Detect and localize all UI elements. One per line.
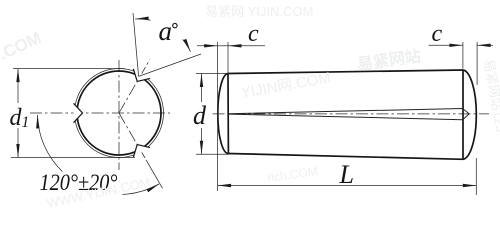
L arrow right	[463, 184, 477, 187]
dimension d arrow top	[200, 74, 203, 88]
angle a leg 1 (near vertical)	[133, 13, 139, 76]
left c dimension line right part with leader	[228, 45, 265, 47]
left crowned end arc	[218, 74, 229, 154]
pin left end face	[227, 74, 229, 154]
angle 120 arrow left	[36, 115, 39, 129]
svg-text:d: d	[193, 101, 207, 130]
left c extension line inner (pin end face extended)	[227, 42, 229, 74]
label L	[336, 164, 358, 185]
groove notch left	[74, 103, 83, 122]
left c dimension line middle segment	[218, 45, 228, 47]
left c arrow pointing left	[228, 44, 242, 47]
dimension d1 arrow top	[16, 69, 19, 83]
dimension d extension line top	[196, 73, 229, 75]
left c extension line outer (through dome tip, also L extension)	[217, 42, 219, 191]
right c arrow pointing left	[477, 44, 491, 47]
svg-text:c: c	[248, 21, 259, 47]
right c dimension line right part	[477, 44, 493, 46]
groove line lower (tapered)	[229, 114, 469, 120]
right c dimension line left part	[429, 44, 463, 46]
dimension d line	[201, 74, 203, 155]
centerline horizontal (end view)	[30, 112, 170, 114]
dimension d1 arrow bottom	[16, 144, 19, 158]
dimension d1 extension line bottom	[11, 157, 135, 159]
label d1	[8, 103, 30, 128]
right c arrow pointing right	[449, 44, 463, 47]
left c arrow pointing right	[204, 44, 218, 47]
centerline horizontal (side view)	[213, 113, 490, 115]
groove line upper (tapered)	[229, 109, 469, 114]
angle 120 arc left segment	[38, 115, 63, 172]
pin top edge	[228, 70, 463, 74]
L arrow left	[218, 184, 232, 187]
svg-text:a: a	[159, 16, 173, 46]
groove notch top-right	[133, 69, 150, 82]
angle a leg 2	[139, 54, 201, 76]
svg-text:易紧网 YIJIN.COM: 易紧网 YIJIN.COM	[205, 4, 313, 19]
L extension line right	[475, 158, 477, 195]
dimension d1 line	[17, 69, 19, 158]
outer expanded circle d1 (thin)	[75, 69, 164, 158]
dimension d1 extension line top	[13, 68, 125, 70]
angle a arc arrow right	[183, 39, 190, 52]
right c extension line inner	[462, 42, 464, 69]
dimension d extension line bottom	[196, 153, 229, 155]
svg-text:c: c	[432, 21, 443, 47]
angle a arc arrow left	[135, 17, 149, 20]
left c dimension line left part	[197, 45, 218, 47]
angle a arc right segment	[183, 39, 191, 51]
right c extension line outer	[476, 42, 478, 85]
main circle d (thick)	[77, 71, 161, 155]
label d	[192, 102, 209, 128]
groove notch bottom-right	[133, 145, 150, 158]
right crowned end arc	[463, 70, 476, 159]
extension line of 300deg radial for angle dimension	[146, 160, 163, 189]
centerline 300deg radial through bottom groove	[119, 113, 145, 158]
angle 120 arrow right	[147, 184, 160, 192]
L dimension line	[218, 185, 477, 187]
angle 120 arc right segment	[122, 184, 159, 194]
dimension d arrow bottom	[200, 141, 203, 155]
centerline vertical (end view)	[118, 60, 120, 170]
centerline 60deg radial through top groove	[119, 59, 150, 113]
pin bottom edge	[228, 154, 463, 160]
angle a arc left segment	[135, 19, 151, 20]
pin right end face	[462, 70, 464, 159]
svg-text:L: L	[339, 160, 354, 189]
